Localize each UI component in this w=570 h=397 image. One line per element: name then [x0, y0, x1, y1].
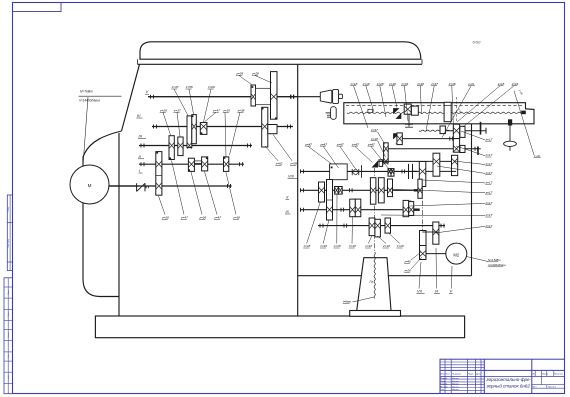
svg-text:t=6мм: t=6мм — [343, 300, 351, 304]
svg-text:z=17: z=17 — [485, 190, 493, 194]
svg-text:Масса: Масса — [542, 374, 549, 376]
svg-text:z=47: z=47 — [351, 142, 359, 146]
svg-text:z=37: z=37 — [173, 109, 181, 113]
svg-text:z=19: z=19 — [222, 109, 230, 113]
svg-text:Иванов: Иванов — [452, 389, 458, 391]
svg-text:Иванов: Иванов — [452, 384, 458, 386]
svg-text:z=17: z=17 — [485, 224, 493, 228]
svg-text:z=18: z=18 — [362, 82, 370, 86]
svg-text:n=1440об/мин: n=1440об/мин — [79, 98, 100, 102]
svg-text:1 об.: 1 об. — [534, 154, 541, 158]
svg-text:z=18: z=18 — [333, 244, 341, 248]
svg-text:z=18: z=18 — [382, 244, 390, 248]
svg-text:z=33: z=33 — [400, 82, 408, 86]
svg-text:Гв: Гв — [370, 280, 374, 284]
svg-text:z=18: z=18 — [416, 82, 424, 86]
svg-text:подл.: подл. — [7, 374, 10, 379]
svg-text:z=26: z=26 — [159, 109, 167, 113]
svg-text:z=47: z=47 — [212, 109, 220, 113]
svg-text:Подп.: Подп. — [468, 374, 474, 376]
svg-text:z=28: z=28 — [404, 269, 412, 273]
svg-text:Инв.: Инв. — [8, 354, 10, 358]
svg-text:z=58: z=58 — [185, 85, 193, 89]
svg-text:z=47: z=47 — [180, 216, 188, 220]
svg-text:VIII: VIII — [288, 175, 295, 179]
svg-text:z=38: z=38 — [289, 162, 297, 166]
svg-text:V: V — [146, 89, 149, 94]
svg-text:1 об.: 1 об. — [468, 82, 475, 86]
svg-text:Н.контр.: Н.контр. — [440, 386, 448, 388]
svg-text:Иванов: Иванов — [452, 381, 458, 383]
svg-text:z=47: z=47 — [171, 85, 179, 89]
svg-text:М: М — [88, 183, 92, 188]
svg-text:Инв. дубл.: Инв. дубл. — [7, 238, 10, 247]
svg-text:зерный станок 6н82: зерный станок 6н82 — [486, 383, 531, 389]
svg-text:z=47: z=47 — [367, 142, 375, 146]
svg-text:z=18: z=18 — [388, 82, 396, 86]
svg-text:Лист: Лист — [532, 387, 536, 389]
svg-text:N=1,5кВт: N=1,5кВт — [488, 258, 501, 262]
svg-text:Масштаб: Масштаб — [554, 374, 563, 376]
svg-text:z=16: z=16 — [511, 82, 519, 86]
svg-text:n=1420об/мин: n=1420об/мин — [488, 263, 506, 267]
svg-text:z=82: z=82 — [275, 162, 283, 166]
svg-text:X: X — [285, 196, 289, 200]
svg-text:Подп.: Подп. — [7, 311, 10, 316]
svg-text:z=17: z=17 — [485, 201, 493, 205]
svg-text:М2: М2 — [453, 252, 459, 257]
svg-text:z=17: z=17 — [485, 162, 493, 166]
svg-text:Подп.: Подп. — [7, 206, 10, 211]
svg-text:Листов 1: Листов 1 — [548, 387, 557, 389]
svg-text:6Н82: 6Н82 — [473, 41, 481, 45]
svg-text:z=47: z=47 — [370, 128, 378, 132]
svg-text:горизонтально-фре-: горизонтально-фре- — [487, 377, 532, 382]
svg-text:z=18: z=18 — [319, 244, 327, 248]
svg-text:дата: дата — [7, 333, 10, 337]
svg-text:z=26: z=26 — [198, 216, 206, 220]
svg-text:z=17: z=17 — [485, 213, 493, 217]
svg-text:Утв.: Утв. — [440, 389, 444, 391]
svg-text:z=38: z=38 — [232, 216, 240, 220]
svg-text:Иванов: Иванов — [452, 386, 458, 388]
svg-text:Т.контр.: Т.контр. — [440, 384, 448, 386]
svg-text:z=26: z=26 — [161, 216, 169, 220]
svg-text:Взам.: Взам. — [8, 289, 10, 294]
svg-text:z=28: z=28 — [251, 72, 259, 76]
svg-text:z=47: z=47 — [213, 216, 221, 220]
svg-text:z=47: z=47 — [336, 142, 344, 146]
svg-text:z=47: z=47 — [319, 142, 327, 146]
svg-text:z=37: z=37 — [430, 82, 438, 86]
svg-text:z=18: z=18 — [350, 82, 358, 86]
svg-text:z=18: z=18 — [364, 244, 372, 248]
svg-text:Иванов: Иванов — [452, 378, 458, 380]
svg-text:z=26: z=26 — [207, 85, 215, 89]
svg-text:z=47: z=47 — [304, 142, 312, 146]
svg-text:N=7кВт: N=7кВт — [80, 89, 93, 93]
svg-text:z=17: z=17 — [485, 153, 493, 157]
svg-text:№ докум.: № докум. — [452, 373, 462, 376]
svg-text:V: V — [450, 289, 453, 294]
svg-text:z=18: z=18 — [497, 82, 505, 86]
svg-text:z=38: z=38 — [237, 109, 245, 113]
svg-text:z=40: z=40 — [404, 260, 412, 264]
svg-text:z=18: z=18 — [348, 244, 356, 248]
svg-text:Пров.: Пров. — [440, 381, 446, 383]
svg-text:IV: IV — [137, 113, 141, 118]
svg-text:z=17: z=17 — [485, 171, 493, 175]
svg-text:z=18: z=18 — [396, 244, 404, 248]
svg-text:IX: IX — [286, 210, 290, 214]
svg-text:z=17: z=17 — [485, 180, 493, 184]
svg-text:z=16: z=16 — [448, 82, 456, 86]
svg-text:z=28: z=28 — [376, 82, 384, 86]
svg-text:z=17: z=17 — [485, 137, 493, 141]
svg-text:Разраб.: Разраб. — [440, 378, 448, 380]
svg-text:z=18: z=18 — [303, 244, 311, 248]
svg-text:Лист: Лист — [445, 374, 450, 376]
svg-text:z=35: z=35 — [235, 72, 243, 76]
svg-text:z=18: z=18 — [370, 137, 378, 141]
svg-text:Лит.: Лит. — [532, 374, 536, 376]
